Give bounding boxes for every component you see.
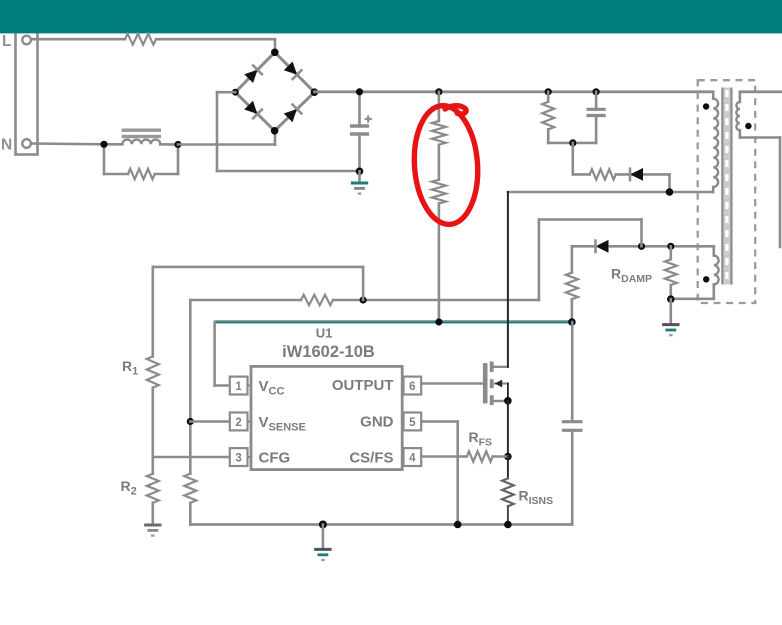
svg-text:3: 3 (235, 453, 241, 465)
svg-text:OUTPUT: OUTPUT (332, 377, 394, 394)
svg-text:N: N (1, 137, 12, 154)
svg-text:CFG: CFG (259, 450, 291, 467)
svg-text:GND: GND (360, 414, 394, 431)
svg-text:5: 5 (409, 417, 416, 429)
svg-text:L: L (2, 33, 11, 50)
svg-text:U1: U1 (316, 326, 333, 341)
svg-text:6: 6 (409, 381, 415, 393)
svg-text:CS/FS: CS/FS (349, 450, 393, 467)
svg-text:1: 1 (235, 381, 242, 393)
svg-text:iW1602-10B: iW1602-10B (282, 343, 375, 361)
svg-text:2: 2 (235, 417, 241, 429)
svg-text:4: 4 (409, 453, 416, 465)
